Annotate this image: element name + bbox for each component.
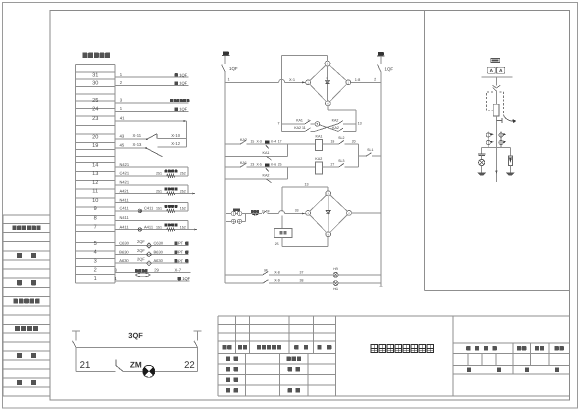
svg-text:1QF: 1QF <box>182 276 190 281</box>
svg-text:152: 152 <box>180 207 186 211</box>
svg-text:A411: A411 <box>144 224 154 229</box>
svg-text:13: 13 <box>305 183 309 187</box>
svg-text:19: 19 <box>331 140 335 144</box>
svg-text:A630: A630 <box>154 258 164 263</box>
svg-text:KA1: KA1 <box>240 161 247 165</box>
svg-text:B630: B630 <box>119 249 129 254</box>
svg-text:PT: PT <box>178 250 184 255</box>
svg-text:29: 29 <box>154 268 159 273</box>
svg-text:C411: C411 <box>120 206 130 211</box>
svg-text:1QF: 1QF <box>179 72 187 77</box>
svg-text:A630: A630 <box>119 258 129 263</box>
svg-text:C630: C630 <box>154 240 164 245</box>
svg-text:1QF: 1QF <box>229 66 238 71</box>
svg-text:25: 25 <box>278 163 282 167</box>
svg-text:252: 252 <box>180 189 186 193</box>
svg-text:KA2: KA2 <box>315 157 322 161</box>
svg-text:PT: PT <box>178 241 184 246</box>
svg-text:9: 9 <box>308 119 310 123</box>
svg-text:KA2: KA2 <box>240 138 247 142</box>
svg-text:11: 11 <box>92 189 98 195</box>
svg-text:X-7: X-7 <box>175 268 182 273</box>
svg-text:X-5: X-5 <box>257 163 262 167</box>
svg-text:N421: N421 <box>120 180 130 185</box>
svg-text:B630: B630 <box>154 249 164 254</box>
svg-text:14: 14 <box>92 162 98 168</box>
svg-text:38: 38 <box>300 279 304 283</box>
svg-text:V: V <box>326 77 328 80</box>
svg-text:20: 20 <box>92 134 98 140</box>
svg-text:23: 23 <box>92 116 98 122</box>
svg-text:SL1: SL1 <box>367 148 373 152</box>
svg-text:1-8: 1-8 <box>355 77 361 82</box>
svg-text:3: 3 <box>94 258 97 264</box>
svg-text:25: 25 <box>275 242 279 246</box>
svg-text:24: 24 <box>92 107 98 113</box>
svg-text:X-3: X-3 <box>257 140 262 144</box>
svg-text:33: 33 <box>295 208 299 212</box>
svg-text:5: 5 <box>94 241 97 247</box>
svg-text:151: 151 <box>156 207 162 211</box>
svg-text:13: 13 <box>92 171 98 177</box>
svg-text:252: 252 <box>180 172 186 176</box>
svg-text:2: 2 <box>374 78 376 82</box>
svg-text:20: 20 <box>352 140 356 144</box>
svg-text:251: 251 <box>156 172 162 176</box>
svg-text:N421: N421 <box>120 162 130 167</box>
svg-text:A411: A411 <box>120 224 130 229</box>
svg-text:152: 152 <box>180 225 186 229</box>
svg-text:X-1: X-1 <box>289 77 295 82</box>
svg-text:9: 9 <box>94 206 97 212</box>
svg-text:4: 4 <box>94 250 97 256</box>
svg-text:SL2: SL2 <box>338 136 344 140</box>
svg-text:X-11: X-11 <box>133 133 142 138</box>
svg-text:A421: A421 <box>120 188 130 193</box>
svg-text:KA2: KA2 <box>332 119 339 123</box>
svg-text:N411: N411 <box>120 197 130 202</box>
svg-text:C421: C421 <box>120 171 130 176</box>
svg-text:KA1: KA1 <box>263 151 270 155</box>
svg-text:41: 41 <box>120 116 125 121</box>
svg-text:C411: C411 <box>144 206 154 211</box>
svg-text:X-8: X-8 <box>274 270 280 274</box>
svg-text:1QF: 1QF <box>385 66 394 71</box>
svg-text:43: 43 <box>120 134 125 139</box>
svg-text:13: 13 <box>358 121 362 125</box>
svg-text:2QF: 2QF <box>137 248 145 253</box>
svg-text:25: 25 <box>92 98 98 104</box>
svg-text:15: 15 <box>251 140 255 144</box>
svg-text:8: 8 <box>94 216 97 222</box>
svg-text:KA2 11: KA2 11 <box>294 126 306 130</box>
svg-text:KA1: KA1 <box>316 135 323 139</box>
svg-text:ZM: ZM <box>130 361 142 370</box>
svg-text:X-12: X-12 <box>171 141 181 146</box>
svg-text:C630: C630 <box>119 240 129 245</box>
svg-text:2QF: 2QF <box>137 239 145 244</box>
svg-text:KA2: KA2 <box>332 126 339 130</box>
svg-text:19: 19 <box>92 143 98 149</box>
svg-text:151: 151 <box>156 225 162 229</box>
svg-text:23: 23 <box>251 163 255 167</box>
svg-text:X-6: X-6 <box>271 163 276 167</box>
svg-text:45: 45 <box>120 143 125 148</box>
svg-text:N411: N411 <box>120 215 130 220</box>
svg-text:1: 1 <box>94 276 97 282</box>
svg-text:1QF: 1QF <box>179 107 187 112</box>
svg-text:10: 10 <box>92 198 98 204</box>
svg-text:2: 2 <box>94 268 97 274</box>
svg-text:31: 31 <box>92 72 98 78</box>
svg-text:KA2: KA2 <box>263 174 270 178</box>
svg-text:1QF: 1QF <box>179 81 187 86</box>
svg-text:22: 22 <box>184 360 195 371</box>
svg-text:HR: HR <box>333 267 338 271</box>
svg-text:12: 12 <box>92 180 98 186</box>
svg-text:17: 17 <box>278 140 282 144</box>
svg-text:SL3: SL3 <box>338 159 344 163</box>
svg-text:7: 7 <box>278 121 280 125</box>
svg-text:30: 30 <box>92 81 98 87</box>
svg-text:21: 21 <box>80 360 91 371</box>
svg-text:X-4: X-4 <box>271 140 276 144</box>
svg-text:X-10: X-10 <box>171 133 181 138</box>
svg-text:1: 1 <box>228 78 230 82</box>
svg-text:251: 251 <box>156 189 162 193</box>
svg-text:2F: 2F <box>266 209 270 213</box>
svg-text:PT: PT <box>178 258 184 263</box>
svg-text:3QF: 3QF <box>128 331 143 340</box>
svg-text:9F: 9F <box>264 269 268 273</box>
svg-text:X-13: X-13 <box>133 142 143 147</box>
svg-text:37: 37 <box>300 270 304 274</box>
svg-text:HG: HG <box>333 287 338 291</box>
svg-text:2QF: 2QF <box>137 257 145 262</box>
svg-text:7: 7 <box>94 225 97 231</box>
svg-text:X-9: X-9 <box>274 279 280 283</box>
svg-text:27: 27 <box>331 163 335 167</box>
svg-text:KA1: KA1 <box>296 119 303 123</box>
